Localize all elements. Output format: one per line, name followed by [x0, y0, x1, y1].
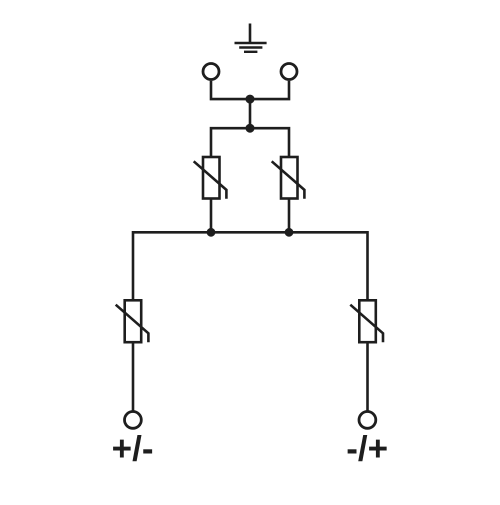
svg-text:+/-: +/-	[112, 430, 154, 469]
svg-text:-/+: -/+	[346, 430, 388, 469]
